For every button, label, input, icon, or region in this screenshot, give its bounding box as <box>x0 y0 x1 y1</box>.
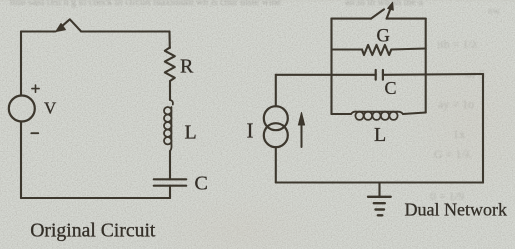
svg-text:V: V <box>44 99 57 118</box>
wire outer right rail <box>482 74 484 183</box>
wire current source bottom stem <box>275 147 277 182</box>
switch S1 blade <box>62 19 82 31</box>
ground bar 1 <box>368 196 391 198</box>
svg-text:1x: 1x <box>453 127 465 141</box>
svg-text:G = 1/λ: G = 1/λ <box>434 147 471 161</box>
current direction arrow shaft <box>301 122 303 147</box>
faint warm blotches <box>0 0 1 1</box>
svg-text:ow: ow <box>488 6 501 17</box>
inductor L branch right wire <box>403 113 426 115</box>
svg-text:ay = 1o: ay = 1o <box>438 97 474 111</box>
conductance G zigzag <box>362 45 391 55</box>
capacitor C right plate <box>382 70 384 80</box>
svg-text:Dual Network: Dual Network <box>405 200 507 220</box>
switch S2 blade <box>371 9 384 18</box>
wire top-right segment <box>81 30 170 32</box>
ground bar 2 <box>374 202 385 204</box>
capacitor C bottom plate <box>154 185 186 187</box>
svg-text:L: L <box>185 122 197 144</box>
wire inner right rail <box>425 19 427 113</box>
inductor L coil (horizontal loops) <box>351 112 403 120</box>
inductor L coil (vertical loops) <box>164 100 173 151</box>
wire inner top-right segment <box>387 18 426 20</box>
wire capacitor to bottom <box>169 186 171 198</box>
switch S1 arrowhead <box>56 24 65 32</box>
capacitor C branch left wire <box>276 74 376 76</box>
wire current source top stem <box>275 75 277 107</box>
capacitor C branch right wire <box>383 73 483 76</box>
conductance G branch right wire <box>391 49 425 50</box>
svg-text:C: C <box>385 78 397 98</box>
inductor L branch left wire <box>332 113 352 115</box>
wire resistor to inductor <box>169 81 171 100</box>
capacitor C top plate <box>154 178 186 180</box>
wire inner left rail <box>330 19 332 114</box>
wire right rail top to resistor <box>168 32 170 49</box>
wire bottom (right circuit) <box>276 181 483 183</box>
svg-text:R: R <box>180 55 194 77</box>
current direction arrowhead <box>298 113 304 126</box>
current source I circle lower <box>264 123 288 147</box>
svg-text:I: I <box>247 118 254 142</box>
svg-text:L: L <box>374 124 386 146</box>
wire top-left segment <box>21 30 56 32</box>
switch S2 arrowhead <box>388 2 394 10</box>
faint bleed-through text at top <box>0 0 515 8</box>
capacitor C left plate <box>375 70 377 80</box>
current source I circle upper <box>264 106 288 130</box>
minus sign <box>31 132 38 134</box>
wire bottom <box>21 197 170 199</box>
ground bar 3 <box>376 208 385 210</box>
wire inner top-left segment <box>332 18 372 20</box>
svg-text:G: G <box>377 27 390 47</box>
svg-text:C: C <box>195 172 208 194</box>
ground bar 4 <box>378 214 383 216</box>
switch S2 arrow shaft <box>387 8 391 19</box>
wire left rail lower <box>20 122 22 198</box>
resistor R zigzag <box>165 48 175 82</box>
faint bleed-through formulas right side <box>430 6 501 203</box>
ground stem <box>378 183 380 197</box>
wire left rail upper <box>20 32 22 96</box>
voltage source V circle <box>9 96 35 122</box>
wire inductor to capacitor <box>169 151 171 179</box>
svg-text:Original Circuit: Original Circuit <box>30 220 156 242</box>
svg-text:ith = 1/λ: ith = 1/λ <box>437 37 478 51</box>
plus sign <box>32 85 39 92</box>
conductance G branch left wire <box>332 48 363 50</box>
